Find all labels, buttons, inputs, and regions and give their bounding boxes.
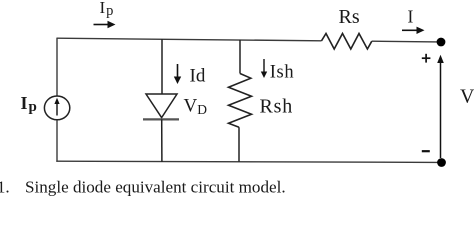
label arrow I (right) bbox=[402, 29, 418, 31]
wire Rsh branch upper bbox=[239, 40, 241, 74]
wire Rsh branch lower bbox=[238, 127, 240, 161]
minus sign bbox=[422, 150, 430, 152]
node B terminal dot (bottom right) bbox=[437, 158, 446, 167]
svg-text:Ish: Ish bbox=[270, 63, 294, 83]
svg-text:Rs: Rs bbox=[339, 6, 360, 28]
wire top bus right segment bbox=[372, 40, 438, 43]
wire left branch lower bbox=[56, 120, 58, 162]
svg-text:Ip: Ip bbox=[100, 0, 114, 19]
label arrow Ip (right) bbox=[94, 24, 110, 26]
diode D triangle bbox=[146, 94, 177, 118]
current source arrow bbox=[56, 102, 58, 116]
wire top bus left segment bbox=[57, 38, 322, 41]
svg-text:Ip: Ip bbox=[21, 93, 37, 115]
plus sign bbox=[422, 57, 431, 59]
svg-text:Rsh: Rsh bbox=[260, 96, 294, 118]
svg-text:Id: Id bbox=[190, 66, 206, 87]
wire diode branch lower bbox=[161, 119, 163, 162]
svg-text:I: I bbox=[408, 7, 414, 27]
voltage arrow V (up) bbox=[440, 61, 442, 158]
svg-text:VD: VD bbox=[184, 96, 208, 118]
wire bottom bus bbox=[56, 161, 438, 162]
wire left branch upper bbox=[56, 38, 58, 96]
current source Ip circle bbox=[44, 96, 69, 120]
label arrow Ish (down) bbox=[263, 59, 265, 73]
resistor Rs bbox=[322, 34, 372, 50]
svg-text:1.: 1. bbox=[0, 178, 10, 197]
svg-text:V: V bbox=[460, 86, 474, 108]
resistor Rsh bbox=[229, 74, 252, 128]
node A terminal dot (top right) bbox=[437, 38, 446, 47]
label arrow Id (down) bbox=[177, 64, 179, 79]
svg-text:Single diode equivalent circui: Single diode equivalent circuit model. bbox=[25, 178, 286, 197]
wire diode branch upper bbox=[161, 39, 163, 94]
diode cathode bar bbox=[143, 118, 179, 120]
